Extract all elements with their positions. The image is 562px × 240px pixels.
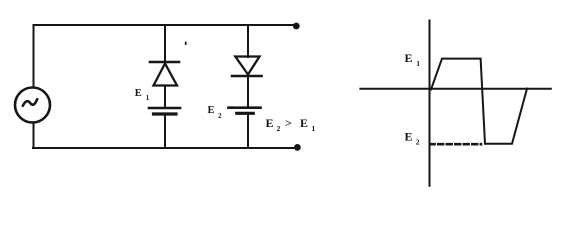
svg-text:E: E <box>405 51 413 65</box>
svg-text:>: > <box>285 116 292 130</box>
svg-text:1: 1 <box>416 59 420 68</box>
svg-text:1: 1 <box>146 94 150 102</box>
svg-text:E: E <box>266 116 274 130</box>
svg-text:E: E <box>300 116 308 130</box>
svg-text:E: E <box>208 105 215 116</box>
svg-text:2: 2 <box>277 124 281 133</box>
svg-text:1: 1 <box>312 124 316 133</box>
svg-text:2: 2 <box>416 138 420 147</box>
svg-text:2: 2 <box>218 112 222 120</box>
svg-text:E: E <box>135 88 142 99</box>
svg-text:E: E <box>405 130 413 144</box>
